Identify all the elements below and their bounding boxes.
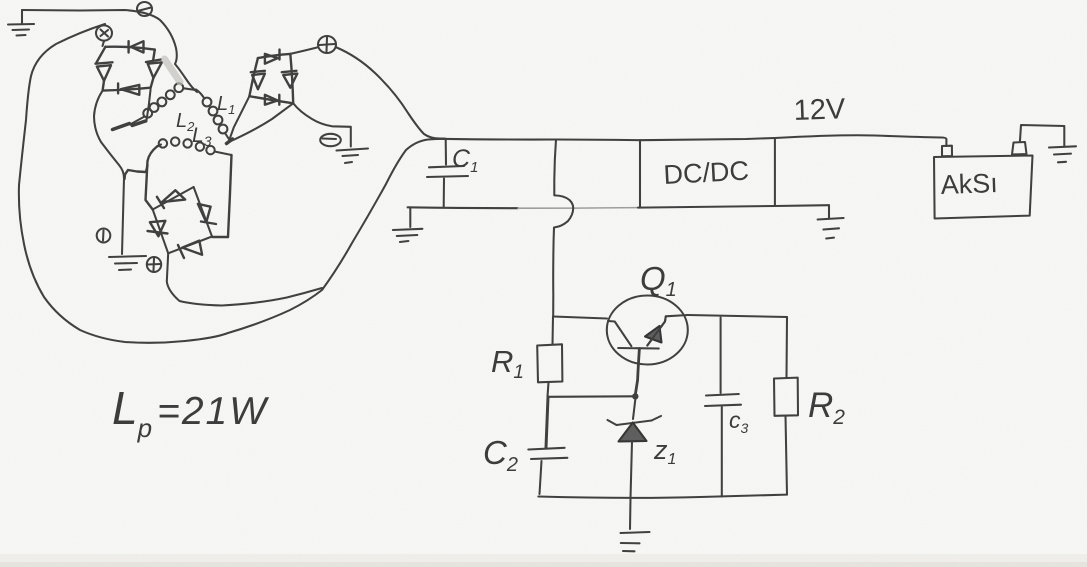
diode D5 bridge B top — [265, 50, 280, 64]
node junction dot — [632, 393, 638, 399]
capacitor C2 — [528, 397, 567, 494]
bridge A outline (top-left rectifier) — [97, 47, 155, 91]
resistor R2 — [774, 317, 798, 495]
ground G6 — [1049, 146, 1076, 162]
wire from bridge C plus output to DC bus — [167, 253, 322, 305]
DC/DC converter box — [640, 138, 775, 208]
wire outer loop from top-left around bottom to DC bus — [19, 24, 445, 343]
node terminal circled 1 — [97, 229, 111, 243]
wire top DC bus rail — [437, 138, 775, 140]
ground G4 below C1 — [393, 208, 423, 243]
inductor L1 winding — [196, 90, 233, 144]
bridge B outline (top-right rectifier) — [249, 54, 293, 103]
wire from ground G1 to minus terminal and center node — [22, 10, 197, 92]
node minus terminal near ground G2 — [320, 134, 341, 146]
diode D12 bridge C bottom-right — [178, 241, 202, 258]
node plus terminal right (circled plus) — [318, 36, 336, 53]
ground G1 top-left — [8, 10, 34, 36]
wire regulator bottom rail — [538, 495, 787, 498]
wire bridge A lower-right corner down to L2 coil end — [132, 89, 150, 125]
ground G3 — [109, 256, 146, 270]
diode D2 bridge A left — [96, 62, 113, 80]
wire bridge B lower corner to ground G2 — [293, 103, 351, 146]
wire DC/DC output to battery — [775, 135, 947, 146]
battery Aksi box — [934, 142, 1033, 219]
node minus terminal (circled minus) top — [137, 2, 152, 16]
wire bottom DC bus rail — [408, 206, 518, 209]
diode D9 bridge C top-left — [157, 190, 185, 208]
transistor Q1 — [607, 296, 688, 394]
inductor L2 winding — [113, 83, 196, 129]
diode D8 bridge B bottom — [265, 95, 279, 105]
wire from plus terminal sweeping to DC bus — [336, 47, 443, 139]
wire bridge A lower-left corner down to node1 wire — [94, 91, 124, 178]
ground G7 below zener — [621, 532, 650, 551]
pencil smudge mark — [165, 59, 181, 82]
wire R1 bottom to zener node — [548, 395, 635, 398]
capacitor C3 — [705, 318, 741, 497]
capacitor C1 — [427, 140, 468, 207]
diode D4 bridge A bottom — [118, 84, 139, 95]
bridge C diamond edges — [153, 187, 212, 253]
diode D1 bridge A top — [129, 41, 144, 52]
wire Q1 collector to R2 branch — [688, 315, 787, 317]
wire vertical branch with hop over bottom rail — [553, 140, 573, 317]
wire bridge B to plus terminal — [290, 48, 317, 54]
wire bridge B left corner down to L1 end — [230, 96, 249, 138]
ground G5 below DC/DC — [818, 205, 844, 238]
node circled-x terminal — [96, 25, 112, 46]
ground G2 — [337, 149, 369, 164]
wire branch to Q1 base row — [553, 317, 607, 319]
wire battery negative to ground G6 — [1020, 125, 1064, 146]
wire node1 vertical to ground G3 — [122, 178, 124, 254]
diode D7 bridge B middle — [282, 71, 298, 88]
diode D6 bridge B left — [251, 71, 265, 89]
diode D3 bridge A right — [146, 60, 162, 78]
resistor R1 — [537, 317, 562, 397]
node plus terminal bottom (circled plus) — [147, 257, 161, 272]
wire L1 end up to bridge B right corner — [231, 103, 293, 141]
bridge C outline (bottom rectifier) — [125, 146, 232, 237]
diode D10 bridge C top-right — [198, 204, 216, 224]
inductor L3 winding — [158, 137, 232, 155]
zener diode Z1 — [608, 400, 662, 530]
diode D11 bridge C bottom-left — [148, 221, 168, 237]
